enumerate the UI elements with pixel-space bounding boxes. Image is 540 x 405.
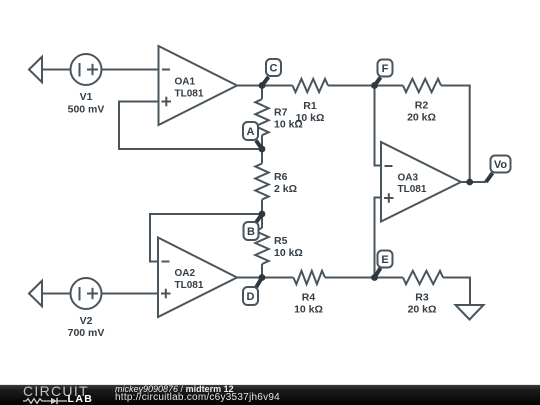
svg-text:R4: R4 xyxy=(302,292,316,304)
svg-text:R2: R2 xyxy=(415,100,429,112)
svg-text:10 kΩ: 10 kΩ xyxy=(274,118,303,130)
svg-text:E: E xyxy=(381,254,388,266)
svg-text:B: B xyxy=(247,226,255,238)
svg-text:V2: V2 xyxy=(80,315,93,327)
svg-text:R1: R1 xyxy=(303,100,317,112)
svg-text:TL081: TL081 xyxy=(398,184,427,195)
svg-text:D: D xyxy=(247,291,255,303)
svg-text:OA2: OA2 xyxy=(175,268,196,279)
svg-text:R6: R6 xyxy=(274,171,288,183)
svg-text:OA3: OA3 xyxy=(398,173,419,184)
svg-text:R5: R5 xyxy=(274,235,288,247)
svg-text:C: C xyxy=(270,63,278,75)
svg-text:2 kΩ: 2 kΩ xyxy=(274,183,297,195)
svg-text:Vo: Vo xyxy=(494,159,508,171)
svg-text:OA1: OA1 xyxy=(175,77,196,88)
svg-text:V1: V1 xyxy=(80,91,93,103)
svg-text:F: F xyxy=(382,63,389,75)
svg-text:700 mV: 700 mV xyxy=(68,327,105,339)
svg-text:TL081: TL081 xyxy=(175,88,204,99)
svg-text:20 kΩ: 20 kΩ xyxy=(408,304,437,316)
svg-text:TL081: TL081 xyxy=(175,280,204,291)
svg-text:500 mV: 500 mV xyxy=(68,103,105,115)
svg-text:A: A xyxy=(247,126,255,138)
svg-text:10 kΩ: 10 kΩ xyxy=(294,304,323,316)
svg-text:R3: R3 xyxy=(415,292,429,304)
svg-text:R7: R7 xyxy=(274,106,288,118)
svg-text:20 kΩ: 20 kΩ xyxy=(407,112,436,124)
svg-text:10 kΩ: 10 kΩ xyxy=(274,247,303,259)
